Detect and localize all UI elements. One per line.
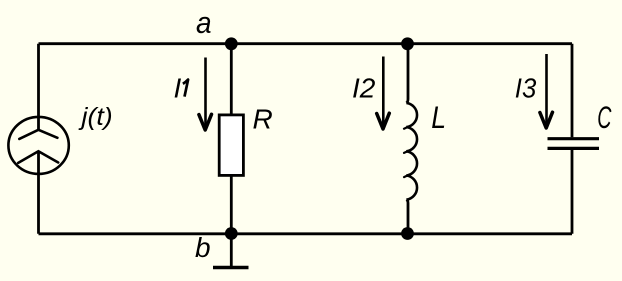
current source J1 circle [8, 117, 68, 174]
junction dot node a at inductor branch [401, 37, 414, 50]
inductor coil cusp tick 3 [404, 175, 409, 177]
inductor L coil [406, 103, 417, 200]
current source J1 upper arrowhead [19, 130, 57, 139]
wire top bus (node a) [39, 42, 573, 45]
wire right branch lower (from capacitor) [571, 150, 574, 234]
ground lead from node b [230, 234, 233, 266]
svg-text:C: C [597, 99, 612, 135]
svg-text:I3: I3 [515, 73, 537, 104]
svg-text:a: a [196, 6, 212, 41]
current arrow I2 [377, 57, 390, 130]
svg-text:R: R [253, 104, 273, 135]
wire inductor top lead [406, 44, 408, 103]
capacitor C top plate [548, 137, 600, 140]
svg-text:I2: I2 [352, 72, 376, 103]
svg-text:L: L [431, 101, 446, 136]
wire left branch lower (out of current source) [37, 151, 40, 234]
inductor coil cusp tick 2 [404, 151, 409, 153]
wire left branch upper (into current source) [37, 44, 40, 131]
svg-text:I: I [174, 72, 182, 103]
junction dot node b at inductor branch [401, 227, 414, 240]
wire bottom bus (node b) [39, 232, 573, 235]
current arrow I3 [540, 54, 553, 128]
junction dot node a at resistor branch [225, 37, 238, 50]
svg-text:b: b [195, 232, 211, 263]
wire resistor top lead [230, 44, 233, 115]
inductor coil cusp tick 1 [404, 126, 409, 128]
resistor R body [219, 115, 243, 175]
svg-text:j(t): j(t) [78, 104, 112, 131]
current source J1 lower arrowhead [18, 151, 58, 163]
capacitor C bottom plate [548, 147, 600, 150]
junction dot node b at resistor branch [225, 227, 238, 240]
wire inductor bottom lead [406, 200, 408, 234]
ground bar [213, 266, 249, 269]
wire resistor bottom lead [230, 175, 233, 233]
current arrow I1 [199, 58, 212, 131]
wire right branch upper (to capacitor) [571, 44, 574, 138]
